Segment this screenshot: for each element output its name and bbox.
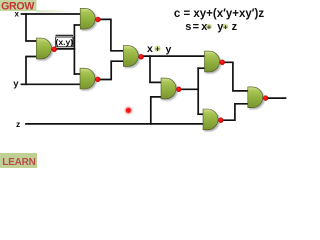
wire riser z to E lower input — [151, 97, 163, 124]
banner fading strip — [37, 10, 73, 12]
wire stub to F lower input — [198, 67, 205, 69]
wire y branch vertical to gate A — [26, 57, 38, 85]
xor symbol 1 — [206, 24, 212, 30]
wire x branch vertical to gate A — [26, 14, 38, 41]
wire stub to C upper input — [74, 73, 82, 75]
wire D output (x xor y) to F — [144, 55, 207, 57]
svg-text:(x.y): (x.y) — [55, 37, 73, 47]
wire F output to H upper input — [224, 62, 250, 91]
wire riser to E upper input — [150, 56, 163, 82]
svg-text:y: y — [13, 78, 19, 89]
wire H output s — [268, 97, 286, 99]
wire stub to B lower input — [74, 24, 81, 26]
nand gate H output s — [248, 87, 268, 108]
wire x input horizontal — [22, 13, 81, 15]
nand gate E — [161, 78, 181, 99]
nand gate C — [80, 68, 100, 89]
svg-text:+: + — [223, 22, 228, 31]
svg-text:+: + — [207, 22, 212, 31]
xor symbol 2 — [223, 24, 229, 30]
wire G output to H lower input — [223, 104, 250, 120]
wire node vertical x=198.2 — [197, 68, 199, 114]
LEARN box — [0, 153, 37, 168]
svg-text:y: y — [166, 43, 172, 55]
wire C output to D — [100, 61, 127, 79]
nand gate D (x xor y) — [123, 46, 143, 67]
label box (x.y) with overline — [55, 35, 73, 47]
svg-text:=: = — [193, 21, 199, 33]
GROW banner box — [0, 0, 37, 11]
wire E output to node — [181, 88, 199, 90]
wire z input horizontal — [26, 123, 205, 125]
svg-text:x: x — [147, 43, 153, 55]
svg-text:LEARN: LEARN — [2, 157, 35, 168]
svg-text:z: z — [16, 119, 20, 129]
nand gate G — [203, 109, 223, 130]
svg-text:z: z — [232, 21, 238, 33]
wire y input horizontal — [22, 83, 82, 85]
wire A output to node — [56, 48, 75, 50]
wire node vertical x=74.5 — [73, 25, 75, 74]
svg-text:+: + — [155, 44, 160, 53]
nand gate F — [205, 51, 225, 72]
wire B output to D — [100, 19, 127, 50]
laser pointer red dot — [123, 105, 133, 115]
nand gate A (x.y)' — [36, 38, 56, 59]
svg-text:x: x — [15, 10, 20, 19]
svg-text:s: s — [185, 21, 191, 33]
svg-text:c = xy+(x′y+xy′)z: c = xy+(x′y+xy′)z — [174, 8, 264, 20]
nand gate B top — [80, 8, 100, 29]
wire stub to G upper input — [198, 113, 204, 115]
xor circle of node label — [154, 45, 160, 51]
